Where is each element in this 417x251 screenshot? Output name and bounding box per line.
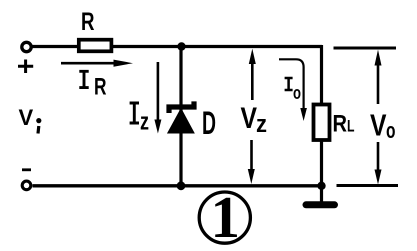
input terminal plus (top-left open circle) — [22, 42, 31, 51]
svg-text:V: V — [241, 102, 258, 135]
label Iz — [130, 103, 149, 136]
wire: bottom rail — [33, 184, 326, 187]
label Vo — [370, 108, 396, 144]
svg-text:o: o — [293, 83, 301, 103]
label Io — [285, 78, 301, 103]
input terminal minus (bottom-left open circle) — [22, 181, 31, 190]
zener diode D anode triangle — [168, 109, 193, 133]
wire: load branch to bottom rail — [320, 140, 323, 186]
resistor RL — [314, 105, 330, 141]
svg-text:L: L — [347, 116, 355, 135]
label IR — [79, 71, 106, 100]
svg-text:z: z — [140, 109, 149, 136]
wire: diode branch (node A down to bottom rail) — [179, 47, 182, 187]
label Vi — [19, 105, 42, 134]
wire: top-left terminal to resistor R — [32, 45, 79, 48]
svg-text:1: 1 — [211, 184, 241, 250]
voltage arrow Vz (up arrowhead) — [249, 49, 256, 100]
wire: resistor R to node A (top rail) — [111, 45, 322, 48]
junction dot (bottom of diode branch) — [177, 181, 186, 190]
svg-text:V: V — [19, 105, 34, 130]
svg-text:R: R — [81, 8, 95, 36]
voltage arrow Vz (down arrowhead) — [248, 140, 255, 184]
voltage arrow Vo (up arrowhead) — [375, 50, 382, 104]
figure number 1 (circled) — [199, 184, 250, 250]
svg-text:V: V — [370, 108, 387, 143]
node A junction dot (top of diode branch) — [177, 42, 185, 50]
minus polarity mark — [22, 168, 31, 171]
wire: output reference segment (bottom right) — [337, 184, 399, 187]
svg-text:R: R — [333, 110, 348, 137]
svg-text:D: D — [202, 105, 216, 141]
junction dot (bottom of load branch / ground node) — [317, 182, 325, 190]
zener diode D cathode bar — [169, 101, 194, 113]
svg-text:o: o — [386, 118, 396, 143]
resistor R — [79, 40, 112, 52]
current arrow Io (hooked) — [279, 59, 307, 121]
label Vz — [241, 102, 268, 138]
wire: output reference segment (top right) — [334, 47, 397, 50]
label RL — [333, 110, 355, 137]
current arrow Iz — [154, 62, 161, 134]
current arrow IR — [61, 60, 133, 67]
svg-text:R: R — [94, 73, 107, 100]
plus polarity mark — [18, 60, 33, 74]
voltage arrow Vo (down arrowhead) — [375, 142, 382, 185]
svg-text:z: z — [256, 111, 267, 138]
wire: top rail corner down to load branch — [320, 45, 323, 105]
ground — [306, 186, 335, 205]
